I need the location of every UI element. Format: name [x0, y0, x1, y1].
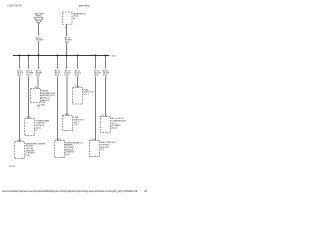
- svg-text:(9-3): (9-3): [100, 149, 105, 151]
- svg-text:(8-4): (8-4): [75, 75, 80, 77]
- junction dot 1: [18, 54, 20, 56]
- wire drop 4 upper: [57, 56, 59, 69]
- wire drop 1 upper: [19, 56, 21, 69]
- wire label component K: [65, 36, 72, 43]
- wire drop 3 lower: [37, 76, 39, 88]
- svg-text:(8-2): (8-2): [26, 75, 31, 77]
- junction dot 4: [56, 54, 58, 56]
- svg-text:System Wiring: System Wiring: [78, 4, 90, 8]
- wire label drop 6: [75, 69, 82, 76]
- wire label drop 1: [17, 69, 24, 76]
- wire drop 7 upper: [95, 56, 97, 69]
- wire drop 8 lower: [105, 76, 107, 116]
- bus wire B+: [13, 55, 110, 57]
- svg-text:(8-1): (8-1): [65, 41, 70, 43]
- wire drop 7 lower: [95, 76, 97, 140]
- component box I label: [26, 143, 46, 157]
- wire battery feed lower segment: [38, 41, 40, 56]
- svg-text:(8-4): (8-4): [41, 104, 46, 106]
- svg-text:(8-2): (8-2): [17, 75, 22, 77]
- junction dot 3: [37, 54, 39, 56]
- battery feed power symbol (hatched triangle): [34, 18, 43, 25]
- svg-text:1: 1: [65, 28, 66, 30]
- wire drop 8 upper: [105, 56, 107, 69]
- junction dot 8: [104, 54, 106, 56]
- svg-text:NO. 1: NO. 1: [83, 94, 89, 96]
- component box G label: [111, 117, 126, 129]
- wire drop 5 upper: [66, 56, 68, 69]
- component box I (dashed): [15, 142, 25, 159]
- component box D (dashed): [63, 116, 73, 131]
- component box H label: [100, 142, 116, 151]
- svg-text:(8-5): (8-5): [94, 75, 99, 77]
- svg-text:(8): (8): [37, 106, 40, 108]
- wire drop 6 lower: [77, 76, 79, 87]
- component box D label: [74, 117, 85, 126]
- wire drop 2 lower: [28, 76, 30, 118]
- wire drop 2 upper: [28, 56, 30, 69]
- wire label battery feed: [36, 36, 43, 41]
- wire component K down to bus: [66, 24, 68, 36]
- component box A label: [41, 91, 56, 107]
- component K label: [73, 12, 86, 19]
- wire label drop 4: [55, 69, 62, 76]
- wire label drop 7: [94, 69, 101, 76]
- component box C label: [83, 89, 94, 96]
- svg-text:(8-3): (8-3): [55, 75, 60, 77]
- component K pin label: [65, 26, 67, 30]
- svg-text:(8-3): (8-3): [36, 75, 41, 77]
- junction dot 5: [65, 54, 67, 56]
- svg-text:FEED: FEED: [36, 16, 42, 18]
- wire label drop 2: [26, 69, 33, 76]
- component box G (dashed): [101, 117, 111, 133]
- wire drop 4 lower: [57, 76, 59, 140]
- svg-text:(30-2): (30-2): [111, 127, 117, 129]
- svg-text:www.servicedata-prodemand.exam: www.servicedata-prodemand.example/vehicl…: [2, 190, 137, 193]
- junction dot 6: [76, 54, 78, 56]
- junction dot 2: [27, 54, 29, 56]
- component box B label: [36, 119, 50, 131]
- wire drop 6 upper: [77, 56, 79, 69]
- svg-text:102511: 102511: [9, 166, 15, 168]
- svg-text:(9-2): (9-2): [74, 124, 79, 126]
- component box A (dashed): [31, 89, 41, 103]
- wire label drop 8: [103, 69, 110, 76]
- svg-text:1/13/24, 9:41 PM: 1/13/24, 9:41 PM: [7, 4, 22, 8]
- component box B (dashed): [25, 119, 35, 136]
- component box C (dashed): [73, 88, 83, 105]
- junction dot 7: [94, 54, 96, 56]
- component box H (dashed): [90, 141, 100, 157]
- wire label drop 3: [36, 69, 43, 76]
- component box F (dashed): [55, 141, 65, 158]
- wire component K lower segment: [66, 43, 68, 56]
- wire battery feed down to bus: [38, 24, 40, 36]
- wire drop 3 upper: [38, 56, 40, 69]
- wire drop 1 lower: [19, 76, 21, 141]
- battery feed label: [35, 13, 45, 18]
- component box F label: [65, 141, 84, 156]
- svg-text:RD/WH: RD/WH: [36, 40, 43, 42]
- svg-text:(8-5): (8-5): [103, 75, 108, 77]
- svg-text:(9-1): (9-1): [26, 155, 31, 157]
- svg-text:(9-1): (9-1): [65, 154, 70, 156]
- component K box (generator, dashed): [63, 12, 73, 24]
- svg-text:(8-4): (8-4): [65, 75, 70, 77]
- wire label drop 5: [65, 69, 72, 76]
- wire drop 5 lower: [66, 76, 68, 115]
